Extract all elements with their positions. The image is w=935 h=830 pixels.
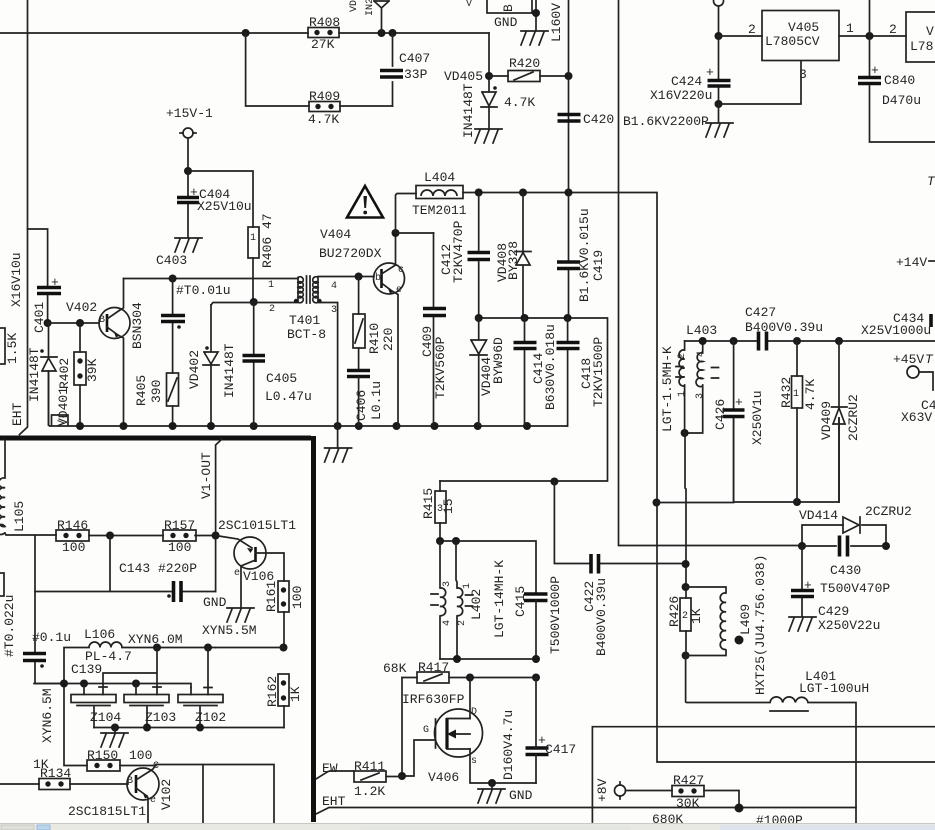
svg-text:BCT-8: BCT-8: [287, 327, 326, 342]
svg-text:VD: VD: [349, 0, 360, 12]
svg-text:R406 47: R406 47: [260, 213, 275, 268]
svg-text:C143 #220P: C143 #220P: [119, 561, 197, 576]
svg-text:#T0.01u: #T0.01u: [176, 283, 231, 298]
node VD409 top: [835, 337, 843, 345]
node A1: [242, 29, 250, 37]
svg-text:27K: 27K: [311, 37, 335, 52]
wire L402 top: [440, 541, 536, 592]
svg-text:B: B: [127, 776, 133, 787]
svg-text:B1.6KV2200P: B1.6KV2200P: [623, 114, 709, 129]
svg-text:2: 2: [682, 611, 688, 622]
svg-text:Z103: Z103: [145, 710, 176, 725]
wire y=727 bus: [592, 727, 935, 822]
node L402 pin3: [436, 537, 444, 545]
svg-text:C417: C417: [545, 742, 576, 757]
svg-text:R150: R150: [87, 748, 118, 763]
svg-text:C419: C419: [591, 250, 606, 281]
inductor L401: [770, 669, 869, 711]
diode VD401: [27, 323, 72, 426]
svg-text:XYN5.5M: XYN5.5M: [202, 623, 257, 638]
svg-text:R411: R411: [354, 759, 385, 774]
svg-text:R134: R134: [40, 766, 71, 781]
svg-text:C401: C401: [32, 302, 47, 333]
svg-text:T: T: [927, 174, 935, 189]
resistor R409: [308, 89, 340, 127]
svg-text:XYN6.5M: XYN6.5M: [40, 688, 55, 743]
node VD408 top: [519, 189, 527, 197]
svg-text:V.: V.: [57, 414, 68, 426]
svg-text:V: V: [926, 24, 934, 39]
svg-text:C415: C415: [513, 586, 528, 617]
node L403 pin4 top: [699, 337, 707, 345]
regulator U V405: [762, 11, 839, 61]
svg-text:1: 1: [250, 233, 256, 244]
capacitor C422: [582, 554, 609, 656]
svg-text:B400V0.39u: B400V0.39u: [745, 320, 823, 335]
svg-text:X16V220u: X16V220u: [650, 88, 712, 103]
svg-text:2SC1815LT1: 2SC1815LT1: [68, 804, 146, 819]
svg-text:VD409: VD409: [819, 401, 834, 440]
wire vertical x=618.5: [619, 0, 803, 546]
svg-text:V102: V102: [159, 779, 174, 810]
svg-text:T500V1000P: T500V1000P: [548, 576, 563, 654]
svg-text:R408: R408: [309, 15, 340, 30]
svg-text:R161: R161: [264, 581, 279, 612]
svg-text:IN4148T: IN4148T: [222, 343, 237, 398]
svg-text:X63V: X63V: [901, 410, 932, 425]
svg-text:V402: V402: [66, 300, 97, 315]
svg-text:C840: C840: [884, 73, 915, 88]
svg-text:4.7K: 4.7K: [308, 112, 339, 127]
inductor L403 dual: [676, 341, 719, 433]
svg-text:+: +: [51, 275, 59, 290]
node R432 bottom: [793, 498, 801, 506]
wire R417 left down: [401, 678, 403, 777]
svg-text:B: B: [99, 315, 105, 326]
wire T401 pin4: [318, 276, 374, 278]
capacitor C407: [380, 33, 430, 106]
wire vertical x=568.5: [568, 0, 570, 193]
svg-text:VD414: VD414: [799, 508, 838, 523]
svg-text:3: 3: [695, 393, 706, 399]
inductor L402 dual: [431, 541, 507, 659]
svg-text:VD405: VD405: [444, 69, 483, 84]
svg-text:c: c: [398, 265, 404, 276]
transistor V404: [374, 233, 405, 426]
arrester Z104: [71, 684, 121, 728]
resistor R157: [163, 518, 196, 555]
svg-text:IN2: IN2: [365, 0, 376, 16]
svg-text:C430: C430: [830, 563, 861, 578]
node L403 bottom: [681, 429, 689, 437]
capacitor C405: [243, 302, 312, 426]
terminal +15V-1: [166, 106, 213, 171]
transistor V402: [66, 279, 145, 427]
svg-text:4.7K: 4.7K: [504, 95, 535, 110]
svg-text:G: G: [423, 725, 429, 736]
capacitor C429: [791, 546, 880, 633]
capacitor C419: [557, 193, 606, 319]
svg-text:R146: R146: [57, 518, 88, 533]
svg-text:V: V: [466, 0, 472, 10]
svg-text:R415: R415: [421, 488, 436, 519]
svg-text:C429: C429: [818, 604, 849, 619]
node rail dots: [76, 422, 84, 430]
node L402 pin2 bottom: [453, 655, 461, 663]
resistor R162: [265, 674, 303, 728]
resistor R411: [316, 759, 402, 799]
wire pin2: [211, 303, 298, 306]
node Zb2: [143, 724, 151, 732]
resistor R415: [421, 481, 456, 541]
wire EHT: [316, 794, 856, 814]
svg-text:T500V470P: T500V470P: [820, 581, 890, 596]
svg-text:2: 2: [457, 620, 468, 626]
svg-text:R409: R409: [309, 89, 340, 104]
svg-text:1.2K: 1.2K: [354, 784, 385, 799]
svg-text:X25V1000u: X25V1000u: [861, 323, 931, 338]
resistor R432: [779, 341, 818, 502]
wire +15 to R406: [188, 171, 253, 227]
svg-text:C424: C424: [671, 74, 702, 89]
svg-text:BSN304: BSN304: [130, 302, 145, 349]
node C424 bottom: [715, 100, 723, 108]
wire L403 bottom down: [685, 433, 686, 587]
resistor R426: [667, 596, 704, 631]
svg-text:B400V0.39u: B400V0.39u: [594, 578, 609, 656]
svg-text:3: 3: [799, 67, 807, 82]
svg-text:2: 2: [677, 353, 688, 359]
connector box B top: [487, 0, 536, 30]
resistor R402: [74, 323, 100, 426]
svg-text:1K: 1K: [288, 686, 303, 702]
capacitor C404: [177, 171, 252, 237]
transistor V106: [216, 536, 284, 609]
diode VD404: [470, 318, 506, 426]
wire x=656 vertical: [657, 503, 935, 763]
taskbar strip bottom: [0, 824, 935, 830]
svg-text:GND: GND: [509, 788, 533, 803]
svg-text:100: 100: [168, 540, 191, 555]
svg-text:L0.1u: L0.1u: [369, 381, 384, 420]
resistor R420: [489, 56, 569, 82]
wire R409 row: [246, 33, 393, 106]
node Zb1: [111, 724, 119, 732]
svg-text:#0.1u: #0.1u: [32, 630, 71, 645]
transistor V102: [68, 761, 174, 830]
svg-text:X25V10u: X25V10u: [197, 199, 252, 214]
svg-text:15: 15: [441, 498, 456, 514]
svg-text:C420: C420: [583, 112, 614, 127]
node XYN6.0M taps: [153, 644, 161, 652]
resistor R417: [383, 660, 536, 683]
svg-text:T2KV1500P: T2KV1500P: [591, 337, 606, 407]
svg-text:2: 2: [269, 304, 275, 315]
node T401 pin2: [250, 298, 258, 306]
svg-text:BY328: BY328: [506, 241, 521, 280]
wire V402 collector bus y=278.5: [124, 278, 299, 280]
svg-text:e: e: [234, 568, 240, 579]
wire V405 pin3: [719, 61, 802, 104]
svg-text:3: 3: [331, 305, 337, 316]
node C143 vert top: [106, 532, 114, 540]
svg-text:IRF630FP: IRF630FP: [402, 692, 465, 707]
wire collector to L404 and C409: [396, 194, 434, 234]
svg-text:L78: L78: [910, 39, 933, 54]
wire base: [48, 322, 99, 324]
svg-text:1: 1: [268, 280, 274, 291]
svg-text:T2KV560P: T2KV560P: [433, 336, 448, 399]
svg-text:b: b: [375, 272, 381, 284]
node R426 bottom: [682, 652, 690, 660]
wire to V405 pin2: [719, 35, 763, 37]
svg-text:+: +: [706, 65, 714, 80]
svg-text:IN4148T: IN4148T: [461, 83, 476, 138]
svg-text:C407: C407: [399, 51, 430, 66]
node V404 collector: [392, 229, 400, 237]
svg-text:390: 390: [149, 380, 164, 403]
svg-text:T401: T401: [289, 313, 320, 328]
svg-text:+: +: [735, 395, 743, 410]
diode VD414: [799, 504, 912, 546]
svg-text:3: 3: [442, 581, 453, 587]
inductor L106: [64, 627, 216, 684]
svg-text:EHT: EHT: [10, 402, 25, 426]
svg-text:2SC1015LT1: 2SC1015LT1: [218, 518, 296, 533]
svg-text:#T0.022u: #T0.022u: [2, 595, 17, 657]
node R432 top: [793, 337, 801, 345]
capacitor C418: [557, 318, 607, 426]
svg-text:L105: L105: [12, 501, 27, 532]
ground L160V: [521, 31, 548, 45]
capacitor C840: [858, 63, 921, 108]
node y482 C415 branch: [550, 478, 558, 486]
svg-text:+: +: [190, 185, 198, 200]
svg-text:BU2720DX: BU2720DX: [319, 246, 382, 261]
wire Z top bus A: [34, 684, 191, 766]
node C417 top: [532, 674, 540, 682]
wire XYN6.0M to R162: [216, 647, 284, 649]
svg-text:T: T: [925, 352, 934, 367]
svg-text:1: 1: [677, 391, 688, 397]
svg-text:4: 4: [696, 351, 707, 357]
svg-text:LGT-1.5MH-K: LGT-1.5MH-K: [660, 346, 675, 432]
svg-text:68K: 68K: [383, 661, 407, 676]
svg-text:IN4148T: IN4148T: [27, 347, 42, 402]
svg-text:D: D: [471, 707, 477, 718]
svg-text:V1-OUT: V1-OUT: [199, 452, 214, 499]
svg-text:e: e: [396, 285, 402, 296]
ground C429: [789, 617, 816, 631]
svg-text:X250V22u: X250V22u: [818, 618, 880, 633]
diode VD403 (cut at top edge): [349, 0, 389, 33]
svg-text:C427: C427: [745, 305, 776, 320]
svg-text:L160V: L160V: [549, 3, 564, 42]
wire x=869.5: [870, 0, 935, 142]
capacitor C427: [745, 305, 823, 351]
resistor R150: [87, 748, 152, 771]
capacitor C420: [558, 112, 615, 127]
diode VD408: [495, 193, 531, 319]
svg-text:R432: R432: [779, 377, 794, 408]
node R420 right: [565, 72, 573, 80]
node GND stub: [532, 9, 540, 17]
svg-text:4.7K: 4.7K: [803, 379, 818, 410]
svg-text:+8V: +8V: [595, 778, 610, 802]
capacitor C401: [28, 229, 62, 333]
wire y=502 bus: [657, 418, 840, 503]
node V402 base: [44, 319, 52, 327]
svg-text:LGT-100uH: LGT-100uH: [799, 681, 869, 696]
svg-text:2: 2: [889, 22, 897, 37]
ground V406: [491, 783, 493, 788]
svg-text:X250V1u: X250V1u: [750, 390, 765, 445]
svg-text:L0.47u: L0.47u: [265, 389, 312, 404]
wire bus y=192: [463, 193, 657, 503]
node wA3 Z103: [132, 680, 140, 688]
node VD414 left: [798, 542, 806, 550]
diode VD402: [187, 305, 237, 426]
capacitor C412: [468, 193, 491, 319]
node V406 source gnd: [488, 779, 496, 787]
node 680K junction: [735, 804, 744, 813]
node C414 top: [521, 314, 529, 322]
regulator U2 right edge: [906, 12, 935, 62]
wire L402 bottom y=659: [440, 658, 536, 660]
node Zb3: [196, 724, 204, 732]
capacitor C406: [347, 371, 384, 427]
diode VD405: [444, 33, 535, 138]
svg-text:C405: C405: [266, 371, 297, 386]
svg-text:V405: V405: [788, 20, 819, 35]
node R426 top: [682, 583, 690, 591]
svg-text:R402: R402: [57, 358, 72, 389]
node +15 junction: [184, 167, 192, 175]
wire R146-R157: [89, 535, 216, 537]
resistor R161: [264, 581, 305, 647]
svg-text:+15V-1: +15V-1: [166, 106, 213, 121]
svg-text:100: 100: [129, 748, 152, 763]
wire left vertical x=27.5: [20, 0, 28, 435]
wire V1-OUT: [216, 439, 222, 592]
svg-text:4: 4: [331, 281, 337, 292]
wire V405 out: [839, 35, 906, 37]
capacitor C424: [650, 36, 731, 104]
svg-text:D470u: D470u: [882, 93, 921, 108]
svg-text:1: 1: [846, 21, 854, 36]
svg-text:C139: C139: [71, 662, 102, 677]
wire C139 row: [103, 648, 157, 688]
ground C424: [718, 104, 720, 122]
node V404 base: [355, 273, 363, 281]
svg-text:1.5K: 1.5K: [5, 333, 20, 364]
svg-text:R427: R427: [673, 773, 704, 788]
transistor V406 MOSFET: [402, 678, 536, 786]
svg-text:R410: R410: [367, 323, 382, 354]
ground rail: [337, 426, 339, 448]
node C419 top: [565, 189, 573, 197]
svg-text:Z104: Z104: [90, 710, 121, 725]
svg-text:L403: L403: [686, 323, 717, 338]
svg-text:33P: 33P: [404, 67, 428, 82]
capacitor C426: [713, 341, 765, 502]
node C426 top: [730, 337, 738, 345]
svg-text:D160V4.7u: D160V4.7u: [501, 710, 516, 780]
node VD414 right: [882, 542, 890, 550]
svg-text:V404: V404: [320, 227, 351, 242]
svg-text:B: B: [501, 4, 516, 12]
node wA1: [60, 680, 68, 688]
wire bus y=318: [440, 318, 608, 481]
inductor L409: [686, 555, 768, 695]
svg-text:L404: L404: [424, 170, 455, 185]
svg-text:+14V: +14V: [896, 255, 927, 270]
node C418 top: [564, 314, 572, 322]
node R402 top: [76, 319, 84, 327]
node R411 right: [398, 772, 406, 780]
terminal +45V: [893, 352, 934, 390]
resistor R405: [134, 373, 179, 426]
node x=656 on y502: [653, 499, 661, 507]
wire +B vertical: [718, 6, 720, 36]
svg-text:C403: C403: [156, 253, 187, 268]
svg-text:B630V0.018u: B630V0.018u: [543, 324, 558, 410]
node L404 right: [475, 189, 483, 197]
svg-text:V406: V406: [428, 770, 459, 785]
svg-text:220: 220: [381, 328, 396, 351]
arrester Z102: [178, 688, 226, 728]
svg-text:L7805CV: L7805CV: [765, 34, 820, 49]
resistor R146: [56, 518, 89, 555]
ground XYN5.5M: [227, 608, 254, 622]
node C415 bottom: [532, 655, 540, 663]
capacitor C414: [514, 318, 559, 426]
ground VD405: [475, 129, 502, 143]
inductor L105: [0, 440, 56, 535]
svg-text:39K: 39K: [85, 358, 100, 382]
svg-text:C406: C406: [354, 390, 369, 421]
node A2: [378, 29, 386, 37]
diode VD409 zener: [819, 341, 861, 502]
svg-text:+: +: [871, 63, 879, 78]
svg-text:C: C: [153, 761, 159, 772]
svg-text:R162: R162: [265, 676, 280, 707]
resistor R134: [0, 766, 128, 790]
capacitor C434 right edge: [861, 311, 935, 338]
svg-text:L402: L402: [469, 589, 484, 620]
thick board border: [0, 436, 314, 822]
svg-text:R420: R420: [509, 56, 540, 71]
node V405 in: [715, 32, 723, 40]
resistor R410: [353, 277, 396, 370]
svg-text:R405: R405: [134, 375, 149, 406]
svg-text:R417: R417: [418, 660, 449, 675]
svg-text:L106: L106: [84, 627, 115, 642]
capacitor C409: [420, 233, 448, 426]
capacitor C415: [513, 576, 563, 659]
svg-text:LGT-14MH-K: LGT-14MH-K: [492, 560, 507, 638]
svg-text:L409: L409: [738, 604, 753, 635]
warning triangle: [347, 186, 383, 218]
capacitor #0.1u: [23, 592, 71, 684]
ground C404: [175, 238, 202, 252]
wire top bus y=33: [0, 32, 489, 34]
capacitor C143: [35, 536, 216, 603]
node A3: [389, 29, 397, 37]
capacitor C403: [161, 279, 185, 374]
svg-text:100: 100: [290, 586, 305, 609]
arrester Z103: [124, 684, 176, 728]
